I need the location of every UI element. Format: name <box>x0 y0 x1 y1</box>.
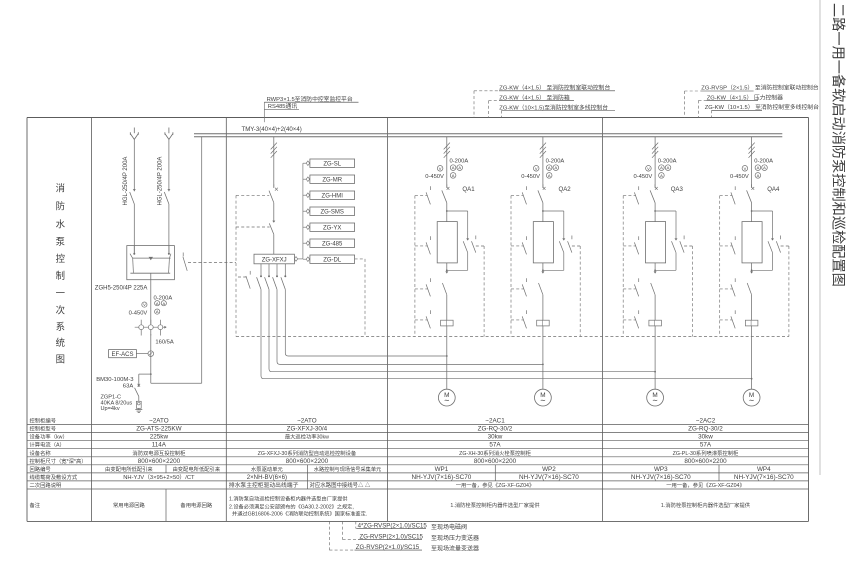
svg-text:NH-YJV（3×95+2×50）/CT: NH-YJV（3×95+2×50）/CT <box>123 474 195 481</box>
specification table grid <box>27 425 809 522</box>
svg-text:图: 图 <box>56 353 65 364</box>
dashed vertical interlock bus <box>235 195 237 336</box>
voltmeter QA1 <box>437 166 443 172</box>
patrol drive wire 1 <box>257 264 752 379</box>
svg-text:A: A <box>660 165 663 170</box>
svg-text:2×NH-BV(6×6): 2×NH-BV(6×6) <box>247 474 287 481</box>
svg-text:0-200A: 0-200A <box>546 158 565 164</box>
patrol contacts column (dashed) QA3 <box>623 186 639 328</box>
svg-text:TMY-3(40×4)+2(40×4): TMY-3(40×4)+2(40×4) <box>242 126 302 133</box>
wire to motor QA4 <box>751 378 753 389</box>
svg-text:水: 水 <box>56 218 66 229</box>
label RWP3x1.5 to fire control room <box>264 95 358 103</box>
branch feeder wire QA2 <box>542 137 544 187</box>
module box ZG-YX <box>303 223 355 231</box>
wire below CT <box>150 334 152 374</box>
patrol enclosure dashed edges QA3 <box>623 196 692 337</box>
svg-text:ZG-485: ZG-485 <box>322 241 343 247</box>
svg-text:A: A <box>757 173 760 178</box>
svg-text:对应水路图中接线号△ △: 对应水路图中接线号△ △ <box>310 481 371 489</box>
svg-text:QA3: QA3 <box>671 186 684 193</box>
svg-text:消防双电源互投控制柜: 消防双电源互投控制柜 <box>132 449 186 457</box>
svg-text:1.消防栓泵控制柜内器件选型厂家提供: 1.消防栓泵控制柜内器件选型厂家提供 <box>661 501 751 509</box>
svg-text:系: 系 <box>56 321 65 332</box>
branch feeder wire QA1 <box>446 137 448 187</box>
ammeters QA4 <box>755 165 767 178</box>
svg-text:57A: 57A <box>700 442 712 449</box>
patrol drive wire 4 <box>281 264 447 356</box>
svg-text:30kw: 30kw <box>698 434 713 441</box>
wire below soft starter QA4 <box>751 263 753 270</box>
module box ZG-SL <box>303 159 355 167</box>
svg-text:A: A <box>757 165 760 170</box>
label ZGP1-C 40KA 8/20us Up=4kv <box>101 395 133 412</box>
patrol drive wire 3 <box>273 264 543 365</box>
patrol contacts column (dashed) QA2 <box>511 186 527 328</box>
voltmeter QA3 <box>646 166 652 172</box>
svg-text:由变配电所低配引来: 由变配电所低配引来 <box>172 465 220 473</box>
ATS dual-power transfer switch box <box>127 246 175 280</box>
svg-text:0-450V: 0-450V <box>129 310 148 316</box>
patrol enclosure dashed edges QA4 <box>720 196 789 337</box>
svg-text:∼: ∼ <box>749 397 755 404</box>
svg-text:设备功率（kw）: 设备功率（kw） <box>30 433 68 441</box>
svg-text:二路一用一备软启动消防泵控制和巡检配置图: 二路一用一备软启动消防泵控制和巡检配置图 <box>830 3 847 287</box>
ATS output wire <box>150 280 152 324</box>
svg-text:57A: 57A <box>489 442 501 449</box>
patrol contacts column (dashed) QA1 <box>415 186 431 328</box>
svg-text:控制柜尺寸（宽*深*高）: 控制柜尺寸（宽*深*高） <box>30 457 87 465</box>
callout 3 flow transmitter <box>355 544 480 553</box>
patrol contacts column (dashed) QA4 <box>720 186 736 328</box>
svg-text:防: 防 <box>56 200 65 211</box>
svg-text:30kw: 30kw <box>488 434 503 441</box>
dashed link from ZG-DL <box>355 259 365 337</box>
svg-text:ZGH5-250/4P 225A: ZGH5-250/4P 225A <box>95 285 148 291</box>
wire to motor QA2 <box>542 364 544 390</box>
svg-text:HGL-250/4P 200A: HGL-250/4P 200A <box>123 157 129 206</box>
branch label QA1 <box>462 186 475 193</box>
svg-text:消: 消 <box>56 182 65 193</box>
left column label 消防水泵控制一次系统图 <box>56 182 66 364</box>
motor QA3 <box>647 389 664 406</box>
branch label QA4 <box>767 186 780 193</box>
svg-text:NH-YJV(7×16)-SC70: NH-YJV(7×16)-SC70 <box>734 474 794 481</box>
dashed patrol contact <box>238 271 250 289</box>
svg-text:V: V <box>535 166 538 171</box>
svg-text:~2AC1: ~2AC1 <box>485 418 505 425</box>
svg-text:ZG-XFXJ-30系列消防型自动巡检控制设备: ZG-XFXJ-30系列消防型自动巡检控制设备 <box>258 449 357 457</box>
svg-text:2.设备必须满足公安部颁布的《GA30.2-2002》之规定: 2.设备必须满足公安部颁布的《GA30.2-2002》之规定, <box>229 502 354 510</box>
branch label QA2 <box>559 186 572 193</box>
3-phase marks QA4 <box>749 143 755 158</box>
section divider lines <box>92 118 603 522</box>
label BM30-100M-3 63A <box>96 377 134 389</box>
svg-text:QA2: QA2 <box>559 186 572 193</box>
svg-text:并通过GB16806-2006《消防联动控制系统》国家标准鉴: 并通过GB16806-2006《消防联动控制系统》国家标准鉴定. <box>232 510 367 518</box>
svg-text:回路编号: 回路编号 <box>30 465 51 473</box>
svg-text:一: 一 <box>56 287 65 298</box>
wire below soft starter QA1 <box>446 263 448 270</box>
ATS auxiliary contact (dashed interlock) <box>183 253 236 271</box>
current transformers 160/5A <box>135 320 167 336</box>
thermal overload relay QA2 <box>537 320 550 364</box>
branch label QA3 <box>671 186 684 193</box>
wire to motor QA1 <box>446 355 448 389</box>
bypass contactor QA4 <box>751 211 774 271</box>
svg-text:ZG-MR: ZG-MR <box>322 177 342 183</box>
motor QA4 <box>743 389 760 406</box>
table section ~2AC1 column <box>411 418 579 509</box>
table row labels <box>30 417 87 509</box>
feeder disconnect switch QS1 <box>130 189 136 253</box>
table section XFXJ column <box>229 418 381 518</box>
meter labels QA4 <box>730 158 773 179</box>
sheet edge line <box>819 0 821 475</box>
ammeters QA2 <box>546 165 558 178</box>
svg-text:NH-YJV(7×16)-SC70: NH-YJV(7×16)-SC70 <box>631 474 691 481</box>
svg-text:A: A <box>667 165 670 170</box>
svg-text:~2ATO: ~2ATO <box>297 418 317 425</box>
svg-text:0-450V: 0-450V <box>634 174 653 180</box>
voltmeter QA4 <box>742 166 748 172</box>
svg-text:WP3: WP3 <box>654 466 668 473</box>
svg-text:0-200A: 0-200A <box>658 158 677 164</box>
svg-text:A: A <box>156 309 159 314</box>
svg-text:BM30-100M-3: BM30-100M-3 <box>96 377 134 383</box>
svg-text:114A: 114A <box>152 442 167 449</box>
svg-text:排水泵主控柜驱动出线端子: 排水泵主控柜驱动出线端子 <box>229 481 299 489</box>
svg-text:ZG-YX: ZG-YX <box>323 225 341 231</box>
main breaker QA1 <box>442 184 450 221</box>
thermal overload relay QA3 <box>649 320 662 372</box>
svg-text:800×600×2200: 800×600×2200 <box>474 458 517 465</box>
svg-text:0-450V: 0-450V <box>730 174 749 180</box>
svg-text:ZG-RVSP（2×1.5） 至消防控制室联动控制台: ZG-RVSP（2×1.5） 至消防控制室联动控制台 <box>701 84 819 92</box>
svg-text:1.消防栓泵控制柜内器件选型厂家提供: 1.消防栓泵控制柜内器件选型厂家提供 <box>450 501 540 509</box>
svg-text:QA4: QA4 <box>767 186 780 193</box>
outer frame <box>27 118 809 522</box>
svg-text:WP4: WP4 <box>757 466 771 473</box>
svg-text:ZG-SMS: ZG-SMS <box>321 209 344 215</box>
svg-text:A: A <box>458 165 461 170</box>
branch feeder wire QA4 <box>751 137 753 187</box>
field cable callouts below table <box>329 521 358 550</box>
main breaker QA2 <box>538 184 546 221</box>
svg-text:控制柜型号: 控制柜型号 <box>30 425 57 433</box>
svg-text:水路控制与现场信号采集单元: 水路控制与现场信号采集单元 <box>314 465 381 473</box>
3-phase marks QA1 <box>444 143 450 158</box>
dashed drops to frame (right group) <box>685 91 712 118</box>
patrol enclosure dashed edges QA2 <box>511 196 580 337</box>
module box ZG-485 <box>303 239 355 247</box>
module box ZG-HMI <box>303 191 355 199</box>
wire below soft starter QA3 <box>654 263 656 270</box>
ATS label ZGH5-250/4P 225A <box>95 285 148 291</box>
svg-text:NH-YJV(7×16)-SC70: NH-YJV(7×16)-SC70 <box>411 474 471 481</box>
patrol bypass contact (dashed) QA1 <box>472 236 485 253</box>
wire elbow to busbar riser <box>151 374 202 383</box>
EF-ACS box <box>109 350 149 359</box>
svg-text:160/5A: 160/5A <box>155 340 174 346</box>
svg-text:A: A <box>660 173 663 178</box>
patrol bypass contact (dashed) QA2 <box>568 236 581 253</box>
voltmeter QA2 <box>533 166 539 172</box>
svg-text:统: 统 <box>56 337 65 348</box>
bypass contactor QA2 <box>542 211 565 271</box>
svg-text:800×600×2200: 800×600×2200 <box>138 458 181 465</box>
svg-text:一用一备，参见《ZG-XF-GZ04》: 一用一备，参见《ZG-XF-GZ04》 <box>456 481 535 489</box>
svg-text:∼: ∼ <box>652 397 658 404</box>
svg-text:A: A <box>554 165 557 170</box>
XFXJ main breaker <box>269 184 278 221</box>
callout 1 solenoid valve <box>357 522 467 531</box>
ammeters A (ATS) <box>155 301 167 315</box>
svg-text:800×600×2200: 800×600×2200 <box>684 458 727 465</box>
svg-text:ZG-RQ-30/2: ZG-RQ-30/2 <box>688 426 723 433</box>
svg-text:QA1: QA1 <box>462 186 475 193</box>
soft starter QA1 <box>437 222 457 263</box>
wire to motor QA3 <box>654 371 656 389</box>
svg-text:备注: 备注 <box>30 501 41 509</box>
motor QA2 <box>535 389 552 406</box>
svg-text:WP1: WP1 <box>435 466 449 473</box>
module box ZG-SMS <box>303 207 355 215</box>
svg-text:∼: ∼ <box>540 397 546 404</box>
svg-text:A: A <box>452 165 455 170</box>
feeder disconnect switch QS2 <box>164 189 170 253</box>
callout 2 pressure transmitter <box>358 534 479 543</box>
dashed drops to frame (left group) <box>474 91 502 118</box>
svg-text:0-200A: 0-200A <box>754 158 773 164</box>
3-phase marks <box>271 143 277 158</box>
dashed interlock stubs <box>236 195 270 227</box>
busbar label TMY-3(40x4)+2(40x4) <box>242 126 302 133</box>
svg-text:ZG-ATS-225KW: ZG-ATS-225KW <box>136 426 181 433</box>
svg-text:线缆载荷及敷设方式: 线缆载荷及敷设方式 <box>30 473 78 481</box>
svg-text:水泵驱动单元: 水泵驱动单元 <box>251 465 283 473</box>
line contactor QA2 <box>539 270 545 320</box>
meter labels QA3 <box>634 158 677 179</box>
3-phase marks QA3 <box>652 143 658 158</box>
svg-text:~2AC2: ~2AC2 <box>696 418 716 425</box>
module bus vertical <box>294 163 303 261</box>
svg-text:0-450V: 0-450V <box>425 174 444 180</box>
incoming feeder arrow 2 <box>165 128 173 192</box>
meter circle on main wire <box>148 351 154 357</box>
soft starter QA3 <box>646 222 666 263</box>
cable labels ZG-RVSP group (right) <box>685 84 820 112</box>
svg-text:A: A <box>156 301 159 306</box>
svg-text:备用电源回路: 备用电源回路 <box>180 501 212 509</box>
svg-text:1.消防泵自动巡检控制设备柜内器件选型由厂家提供: 1.消防泵自动巡检控制设备柜内器件选型由厂家提供 <box>229 495 347 503</box>
controller box ZG-XFXJ <box>254 254 294 264</box>
svg-text:制: 制 <box>56 270 65 281</box>
svg-text:~2ATO: ~2ATO <box>149 418 169 425</box>
drawing title (right, rotated) <box>830 3 847 287</box>
ammeters QA3 <box>659 165 671 178</box>
svg-text:次: 次 <box>56 304 65 315</box>
svg-text:ZG-HMI: ZG-HMI <box>322 193 344 199</box>
CT ratio label <box>155 340 174 346</box>
svg-text:RWP3×1.5至消防中控室监控平台: RWP3×1.5至消防中控室监控平台 <box>267 95 353 103</box>
svg-text:由变配电所低配引来: 由变配电所低配引来 <box>105 465 153 473</box>
meter labels QA1 <box>425 158 468 179</box>
table section ATS column <box>105 418 221 509</box>
svg-text:二次回路说明: 二次回路说明 <box>30 481 62 489</box>
svg-text:RS485通讯: RS485通讯 <box>268 102 298 110</box>
surge arrester ZGP1-C <box>136 401 141 408</box>
feeder label HGL-250/4P 200A <box>123 157 129 206</box>
XFXJ feeder wire from busbar <box>273 137 275 187</box>
bypass contactor QA1 <box>446 211 469 271</box>
svg-text:A: A <box>548 165 551 170</box>
svg-text:A: A <box>548 173 551 178</box>
meter labels QA2 <box>521 158 564 179</box>
line contactor QA4 <box>747 270 753 320</box>
patrol drive wire 2 <box>265 264 655 372</box>
thermal overload relay QA4 <box>745 320 758 379</box>
svg-text:NH-YJV(7×16)-SC70: NH-YJV(7×16)-SC70 <box>519 474 579 481</box>
voltmeter V (ATS) <box>142 302 147 307</box>
patrol bypass contact (dashed) QA4 <box>776 236 789 253</box>
XFXJ second contact <box>269 221 275 255</box>
leader line to busbar <box>263 102 265 122</box>
svg-text:ZG-DL: ZG-DL <box>323 257 342 263</box>
svg-text:ZG-PL-30系列喷淋泵控制柜: ZG-PL-30系列喷淋泵控制柜 <box>673 449 739 457</box>
label RS485 <box>264 102 299 110</box>
table section ~2AC2 column <box>631 418 794 509</box>
ammeters QA1 <box>450 165 462 178</box>
cable labels ZG-KW group (left) <box>474 84 615 112</box>
svg-text:V: V <box>439 166 442 171</box>
feeder label HGL-250/4P 200A <box>158 157 164 206</box>
svg-text:ZG-XFXJ: ZG-XFXJ <box>262 258 287 264</box>
main busbar TMY <box>194 134 782 137</box>
svg-text:800×600×2200: 800×600×2200 <box>286 458 329 465</box>
svg-text:泵: 泵 <box>56 236 65 247</box>
soft starter QA2 <box>533 222 553 263</box>
main breaker QA3 <box>650 184 658 221</box>
svg-text:EF-ACS: EF-ACS <box>111 352 133 358</box>
main breaker QA4 <box>747 184 755 221</box>
svg-text:HGL-250/4P 200A: HGL-250/4P 200A <box>158 157 164 206</box>
module box ZG-MR <box>303 175 355 183</box>
meter labels 0-200A / 0-450V (ATS) <box>129 296 173 317</box>
svg-text:最大巡检功率30kw: 最大巡检功率30kw <box>285 433 329 441</box>
svg-text:设备名称: 设备名称 <box>30 449 52 457</box>
svg-text:63A: 63A <box>123 383 134 389</box>
svg-text:至现场电磁阀: 至现场电磁阀 <box>431 523 467 531</box>
svg-text:0-200A: 0-200A <box>450 158 469 164</box>
svg-text:至现场压力变送器: 至现场压力变送器 <box>431 534 479 542</box>
junction to SPD branch <box>139 373 152 375</box>
svg-text:控制柜编号: 控制柜编号 <box>30 417 57 425</box>
svg-text:控: 控 <box>56 253 66 264</box>
svg-text:V: V <box>647 166 650 171</box>
line contactor QA3 <box>651 270 657 320</box>
patrol enclosure dashed edges QA1 <box>415 196 484 337</box>
SPD breaker 63A <box>135 374 141 401</box>
svg-text:常用电源回路: 常用电源回路 <box>113 501 145 509</box>
line contactor QA1 <box>442 270 448 320</box>
svg-text:ZG-XFXJ-30/4: ZG-XFXJ-30/4 <box>287 426 328 433</box>
motor QA1 <box>438 389 455 406</box>
svg-text:∼: ∼ <box>444 397 450 404</box>
soft starter QA4 <box>742 222 762 263</box>
svg-text:A: A <box>162 301 165 306</box>
svg-text:A: A <box>452 173 455 178</box>
svg-text:V: V <box>744 166 747 171</box>
svg-text:ZG-XH-30系列消火栓泵控制柜: ZG-XH-30系列消火栓泵控制柜 <box>459 449 532 457</box>
svg-text:WP2: WP2 <box>542 466 556 473</box>
svg-text:计算电流（A）: 计算电流（A） <box>30 441 65 449</box>
svg-text:V: V <box>143 302 146 307</box>
svg-text:一用一备，参见《ZG-XF-GZ04》: 一用一备，参见《ZG-XF-GZ04》 <box>666 481 745 489</box>
wire below soft starter QA2 <box>542 263 544 270</box>
svg-text:Up=4kv: Up=4kv <box>101 406 120 412</box>
dashed enclosure bottom line <box>236 336 789 338</box>
ground symbol <box>135 408 142 412</box>
branch feeder wire QA3 <box>654 137 656 187</box>
svg-text:0-450V: 0-450V <box>521 174 540 180</box>
svg-text:ZG-SL: ZG-SL <box>323 161 341 167</box>
thermal overload relay QA1 <box>441 320 454 356</box>
svg-text:225kw: 225kw <box>150 434 169 441</box>
svg-text:至现场流量变送器: 至现场流量变送器 <box>431 545 479 553</box>
bypass contactor QA3 <box>654 211 677 271</box>
incoming feeder arrow 1 <box>130 128 138 192</box>
svg-text:A: A <box>763 165 766 170</box>
busbar riser <box>201 137 203 383</box>
3-phase marks QA2 <box>540 143 546 158</box>
patrol bypass contact (dashed) QA3 <box>680 236 693 253</box>
module box ZG-DL <box>303 255 355 263</box>
svg-text:ZG-RQ-30/2: ZG-RQ-30/2 <box>478 426 513 433</box>
